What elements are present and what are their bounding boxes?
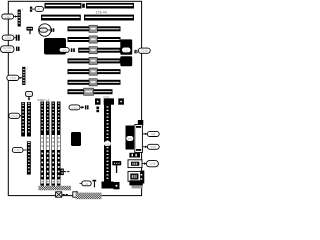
ISA slot 3 (68, 25, 121, 32)
ISA slot 6 (68, 57, 121, 64)
label CN8 (135, 48, 151, 53)
svg-text:CN: CN (105, 142, 109, 146)
label CN6 (9, 113, 22, 118)
cache strip A (21, 102, 25, 137)
svg-text:U1: U1 (124, 48, 128, 52)
label J9 (80, 181, 92, 186)
jumper 2pin (96, 107, 99, 113)
svg-text:CN3: CN3 (5, 36, 12, 40)
svg-text:KB: KB (151, 133, 155, 137)
connector right of battery (51, 28, 54, 31)
label KB (143, 131, 159, 136)
label CN9 (142, 161, 158, 167)
svg-text:PW: PW (151, 145, 156, 149)
svg-text:CN5: CN5 (10, 76, 17, 80)
svg-text:JP5: JP5 (62, 48, 68, 52)
svg-text:BT1: BT1 (41, 28, 47, 32)
strip C (27, 141, 31, 174)
svg-text:P8: P8 (128, 137, 132, 141)
svg-text:J9: J9 (85, 182, 88, 186)
label CN2 (2, 14, 18, 19)
board outline (8, 1, 141, 195)
svg-text:CN7: CN7 (14, 149, 21, 153)
riser connector tall bar (102, 98, 115, 188)
ISA slot 1 (45, 3, 135, 9)
label CN5 (7, 75, 22, 80)
edge connector top (138, 120, 144, 126)
header J1 (18, 8, 24, 27)
ISA slot 9 (68, 88, 113, 95)
svg-text:CN8: CN8 (141, 49, 148, 53)
jumper left of battery (26, 27, 33, 35)
jumper JP9 (112, 161, 121, 173)
label SRM (points down) (26, 92, 33, 101)
jumper T (93, 180, 97, 188)
svg-text:178 44: 178 44 (96, 11, 107, 15)
checker bar 1 (38, 186, 71, 191)
power connector (126, 126, 135, 150)
svg-text:LOCK: LOCK (4, 49, 12, 53)
bottom right bar (129, 180, 142, 188)
SIMM socket 2 (46, 102, 50, 186)
chipset U1 (120, 39, 132, 66)
chip U2 (71, 132, 81, 146)
ISA slot 5 (78, 47, 120, 54)
cache strip B (27, 102, 31, 137)
ISA slot 4 (68, 36, 121, 43)
SIMM socket 3 (51, 102, 55, 186)
edge steps (141, 171, 145, 184)
label PWR (143, 144, 159, 149)
svg-text:CN4: CN4 (71, 106, 77, 110)
svg-text:CN2: CN2 (5, 15, 12, 19)
label CN7 (12, 147, 27, 152)
svg-text:CN9: CN9 (149, 162, 156, 166)
chip left of riser (95, 98, 101, 104)
label CN3 (2, 35, 16, 40)
bar below DIN (129, 153, 140, 158)
header J4 (22, 65, 28, 85)
CPU (44, 38, 66, 55)
svg-text:CN6: CN6 (11, 114, 18, 118)
keyboard DIN box (135, 125, 143, 153)
box with dot (114, 182, 120, 189)
battery (39, 24, 51, 36)
label JP1 (32, 7, 43, 12)
jumper JP1 (30, 7, 32, 12)
legend box X (56, 192, 68, 197)
svg-text:SR: SR (27, 92, 31, 96)
connector with arrow right of SIMM (60, 169, 69, 176)
connector box1 (128, 160, 142, 168)
svg-text:CN12: CN12 (103, 96, 110, 99)
connector J3 (16, 47, 20, 51)
SIMM socket 4 (57, 102, 61, 186)
checker bar 2 (76, 193, 102, 200)
label CN11 (69, 105, 89, 110)
label J5 (59, 48, 75, 53)
ISA slot 2 (41, 15, 134, 21)
svg-text:JP1: JP1 (37, 7, 43, 11)
ISA slot 8 (68, 79, 121, 86)
legend white box (73, 192, 78, 197)
connector box2 (128, 171, 141, 181)
SIMM socket 1 (40, 102, 44, 186)
chip right of riser (118, 98, 124, 104)
ISA slot 7 (68, 68, 121, 75)
connector J2 (16, 35, 20, 41)
label KEYLOCK (1, 46, 14, 53)
